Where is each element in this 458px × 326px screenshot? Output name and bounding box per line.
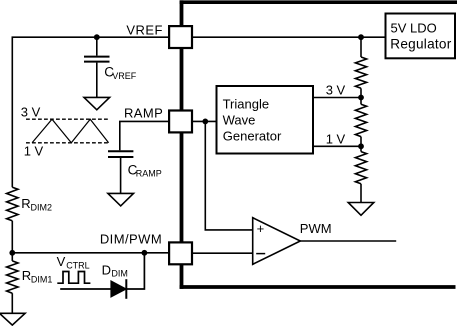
- svg-text:1 V: 1 V: [326, 131, 346, 146]
- op-amp U1: PWM comparator: [253, 218, 301, 265]
- svg-text:R: R: [21, 196, 30, 211]
- svg-text:R: R: [22, 268, 31, 283]
- ground (R_DIM1): [0, 313, 25, 325]
- waveform: V_CTRL square pulses: [57, 272, 90, 284]
- svg-text:3 V: 3 V: [21, 104, 41, 119]
- wire: [360, 137, 362, 152]
- svg-text:V: V: [57, 254, 66, 269]
- junction: 3V node: [358, 95, 364, 101]
- svg-text:DIM/PWM: DIM/PWM: [100, 232, 162, 247]
- wire: PWM output: [300, 240, 396, 242]
- junction: DIM node at left rail: [9, 250, 15, 256]
- diode D_DIM: [111, 281, 126, 297]
- wire: diode cathode up to DIM node: [126, 253, 144, 289]
- wire: VREF pin to 5V LDO Regulator: [193, 36, 385, 38]
- pin DIM/PWM (box): [169, 242, 192, 264]
- block: Triangle Wave Generator: [217, 86, 314, 154]
- wire: RAMP node down to comparator + input: [205, 121, 252, 229]
- ground (C_RAMP): [108, 193, 134, 206]
- svg-text:RAMP: RAMP: [136, 169, 162, 179]
- wire: RAMP pin to C_RAMP: [120, 121, 168, 150]
- svg-text:3 V: 3 V: [326, 83, 346, 98]
- IC body top edge: [180, 0, 457, 4]
- junction: VREF / divider node: [358, 34, 364, 40]
- block: 5V LDO Regulator: [386, 14, 456, 59]
- svg-text:5V LDO: 5V LDO: [391, 21, 437, 36]
- wire: R_DIM2 to DIM node: [11, 221, 13, 261]
- svg-text:1 V: 1 V: [24, 144, 44, 159]
- svg-text:RAMP: RAMP: [124, 106, 163, 121]
- pin VREF (box): [169, 26, 192, 48]
- svg-text:VREF: VREF: [126, 23, 163, 38]
- wire: 1V tap from generator to divider: [314, 145, 362, 147]
- svg-text:VREF: VREF: [112, 71, 137, 81]
- svg-text:DIM: DIM: [111, 269, 128, 279]
- wire: 3V tap from generator to divider: [314, 97, 362, 99]
- waveform: triangle wave icon, 3V/1V dashed levels: [26, 119, 109, 143]
- junction: diode / DIM node: [142, 250, 148, 256]
- ground (divider): [348, 203, 374, 216]
- junction: 1V node: [358, 143, 364, 149]
- svg-text:PWM: PWM: [300, 221, 332, 236]
- capacitor C_VREF: [84, 37, 110, 97]
- svg-text:Triangle: Triangle: [223, 97, 269, 112]
- resistor divider middle: [355, 104, 366, 136]
- wire: DIM/PWM pin to comparator - input: [193, 252, 253, 254]
- wire: RAMP pin to Triangle Wave Generator: [193, 120, 217, 122]
- wire: left rail (VREF net down to R_DIM2): [12, 37, 168, 187]
- resistor R_DIM2: [7, 187, 18, 221]
- resistor divider top: [355, 57, 366, 88]
- junction: RAMP node: [202, 119, 208, 125]
- svg-text:Wave: Wave: [223, 113, 256, 128]
- svg-text:Generator: Generator: [223, 129, 282, 144]
- resistor divider bottom: [355, 152, 366, 184]
- svg-text:CTRL: CTRL: [66, 261, 90, 271]
- IC body bottom edge: [180, 285, 456, 289]
- wire: [360, 88, 362, 104]
- svg-text:DIM2: DIM2: [31, 202, 53, 212]
- svg-text:+: +: [257, 221, 265, 236]
- wire: R_DIM1 to ground: [11, 293, 13, 313]
- svg-text:D: D: [102, 263, 111, 278]
- wire: V_CTRL to diode D_DIM: [60, 288, 111, 290]
- ground (C_VREF): [84, 97, 110, 109]
- junction: VREF / C_VREF node: [94, 34, 100, 40]
- wire: divider bottom to ground: [360, 184, 362, 203]
- capacitor C_RAMP: [108, 151, 133, 193]
- svg-text:Regulator: Regulator: [390, 36, 451, 51]
- resistor R_DIM1: [7, 261, 18, 293]
- wire: DIM/PWM horizontal: [12, 252, 168, 254]
- IC body left edge: [180, 0, 184, 289]
- wire: VREF node down to divider top resistor: [360, 37, 362, 57]
- svg-text:DIM1: DIM1: [31, 275, 53, 285]
- pin RAMP (box): [169, 111, 192, 133]
